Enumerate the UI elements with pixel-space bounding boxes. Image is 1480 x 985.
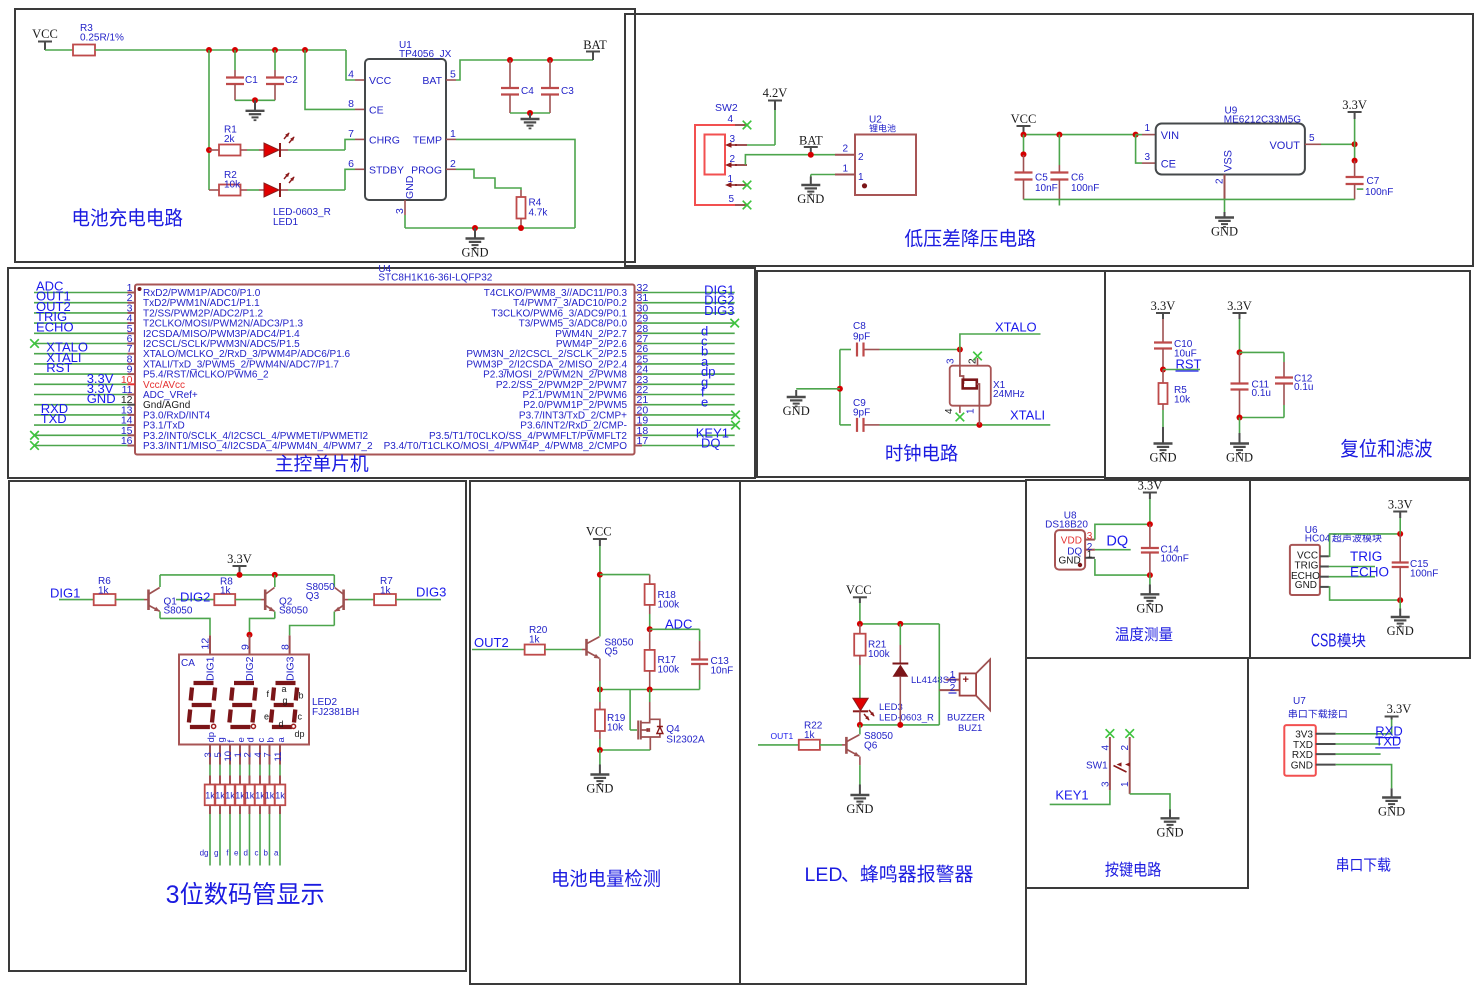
wire SW2 pin3 to 4.2V <box>774 110 776 145</box>
U4 right pin 29 wire <box>642 322 735 324</box>
svg-text:C4: C4 <box>521 86 534 97</box>
U4 left pin 6 wire <box>34 343 128 345</box>
svg-text:GND: GND <box>404 175 416 199</box>
transistor Q2 S8050 <box>264 590 267 611</box>
section box: LED buzzer alarm <box>740 481 1026 984</box>
title serial <box>1337 857 1348 871</box>
wire mid rail <box>600 689 700 691</box>
wire SW1 to gnd <box>1130 794 1170 810</box>
svg-text:C8: C8 <box>853 321 866 332</box>
segment wire b <box>269 805 271 814</box>
svg-text:2: 2 <box>858 152 864 163</box>
U4 left pin 7 wire <box>34 353 128 355</box>
svg-text:9: 9 <box>239 644 251 650</box>
svg-text:3: 3 <box>1087 531 1093 542</box>
svg-text:8: 8 <box>348 98 354 110</box>
wire U2 pin1 to gnd <box>835 174 855 176</box>
svg-text:DIG2: DIG2 <box>244 656 256 681</box>
section box: MCU <box>8 268 755 478</box>
capacitor C14 <box>1149 524 1151 548</box>
svg-text:2: 2 <box>842 144 848 155</box>
power 3.3V reset <box>1156 312 1170 314</box>
ground csb <box>1399 600 1401 608</box>
svg-text:DIG1: DIG1 <box>205 656 217 681</box>
svg-text:TP4056_JX: TP4056_JX <box>399 49 452 60</box>
svg-text:1k: 1k <box>220 586 232 597</box>
switch SW1 <box>1109 737 1111 790</box>
title reset <box>1341 439 1358 458</box>
U4 right pin 26 wire <box>642 353 735 355</box>
net KEY1 wire <box>1050 790 1110 804</box>
svg-text:2k: 2k <box>224 134 236 145</box>
svg-text:P3.4/T0/T1CLKO/MOSI_4/PWM4P_4/: P3.4/T0/T1CLKO/MOSI_4/PWM4P_4/PWM8_2/CMP… <box>384 441 628 452</box>
svg-text:TXD: TXD <box>41 411 67 426</box>
U4 left pin 2 wire <box>34 302 128 304</box>
svg-text:a: a <box>282 684 287 694</box>
resistor R4 <box>520 190 522 197</box>
svg-text:BAT: BAT <box>799 134 823 148</box>
svg-text:DIG2: DIG2 <box>180 590 210 605</box>
svg-text:+: + <box>963 674 969 686</box>
ground under C4 C3 <box>521 113 540 128</box>
resistor R3 <box>73 45 95 56</box>
section box: 7-segment display <box>9 481 466 971</box>
svg-text:LED: LED <box>805 864 843 886</box>
display pin 7 lead <box>269 745 271 765</box>
capacitor C13 <box>699 629 701 641</box>
power 3.3V csb <box>1393 511 1407 513</box>
svg-text:Q5: Q5 <box>605 647 619 658</box>
svg-text:1: 1 <box>858 172 864 183</box>
svg-text:3.3V: 3.3V <box>1388 498 1413 512</box>
wire vcc vertical <box>599 546 601 637</box>
power 3.3V ldo <box>1348 111 1362 113</box>
capacitor C15 <box>1399 534 1401 563</box>
svg-text:DIG3: DIG3 <box>284 656 296 681</box>
U4 right pin 19 wire <box>642 424 735 426</box>
svg-text:Q3: Q3 <box>306 591 320 602</box>
svg-text:TEMP: TEMP <box>413 135 442 147</box>
svg-text:1: 1 <box>450 128 456 140</box>
svg-text:b: b <box>264 849 269 858</box>
ground U2 <box>801 177 820 195</box>
svg-text:VIN: VIN <box>1161 130 1179 142</box>
display pin 2 lead <box>249 745 251 765</box>
U4 left pin 11 wire <box>34 394 128 396</box>
svg-text:3.3V: 3.3V <box>1138 479 1163 493</box>
wire vcc rail ldo <box>1024 134 1136 136</box>
capacitor C2 <box>274 50 276 70</box>
buzzer BUZ1 <box>939 689 959 691</box>
wire cap join <box>235 99 275 101</box>
svg-text:4: 4 <box>944 408 955 414</box>
svg-text:BAT: BAT <box>583 38 607 52</box>
svg-text:100k: 100k <box>868 649 891 660</box>
svg-text:CA: CA <box>181 658 195 669</box>
display pin 10 lead <box>229 745 231 765</box>
svg-text:9pF: 9pF <box>853 408 870 419</box>
capacitor C6 <box>1058 135 1060 165</box>
svg-text:4: 4 <box>1100 745 1111 751</box>
svg-text:1k: 1k <box>225 791 235 801</box>
transistor Q1 S8050 <box>147 590 150 611</box>
title MCU <box>276 455 293 472</box>
ground main charger <box>466 228 485 248</box>
display pin 4 lead <box>259 745 261 765</box>
decimal points <box>212 724 216 728</box>
no-connect X left <box>30 339 39 348</box>
U4 right pin 17 wire <box>642 445 735 447</box>
wire R8 to Q2 <box>235 599 261 601</box>
U6 VCC wire <box>1320 555 1329 557</box>
svg-text:dp: dp <box>295 729 305 739</box>
wire left branch <box>208 50 210 190</box>
net ADC <box>647 626 653 632</box>
no-connect X marks SW2 <box>743 121 752 130</box>
wire bottom rail detect <box>600 749 650 751</box>
svg-text:3.3V: 3.3V <box>227 552 252 566</box>
wire to R18 <box>600 574 650 576</box>
segment wire e <box>239 805 241 814</box>
U8 pin3 <box>1085 539 1095 541</box>
svg-text:d: d <box>245 737 256 742</box>
svg-text:7: 7 <box>348 128 354 140</box>
LED1 top <box>241 149 248 151</box>
power BAT <box>586 51 600 53</box>
U4 right pin 24 wire <box>642 373 735 375</box>
ground temp <box>1149 575 1151 584</box>
capacitor C12 branch <box>1240 351 1285 353</box>
svg-text:3.3V: 3.3V <box>1342 98 1367 112</box>
power VCC buzzer <box>853 596 867 598</box>
svg-text:100nF: 100nF <box>1071 183 1099 194</box>
segment wire dg <box>209 805 211 814</box>
svg-text:3: 3 <box>166 881 180 909</box>
wire Q1 emitter to display pin12 <box>160 618 210 635</box>
ground U9 <box>1215 212 1234 227</box>
svg-text:C2: C2 <box>285 75 298 86</box>
svg-text:3.3V: 3.3V <box>1387 702 1412 716</box>
svg-text:Q6: Q6 <box>864 741 878 752</box>
wire Q3 emitter to display pin8 <box>290 626 335 636</box>
node junctions on VCC rail <box>206 47 212 53</box>
svg-text:GND: GND <box>1149 451 1176 465</box>
display leads top <box>209 635 211 654</box>
diode LL4148SG <box>899 624 901 645</box>
svg-text:g: g <box>214 849 218 858</box>
svg-text:a: a <box>276 737 287 743</box>
svg-text:DQ: DQ <box>1106 534 1128 550</box>
7seg digit 3 <box>271 683 297 727</box>
svg-text:TRIG: TRIG <box>1350 549 1382 564</box>
svg-text:12: 12 <box>200 638 212 650</box>
svg-text:1k: 1k <box>98 586 110 597</box>
svg-text:CE: CE <box>369 105 384 117</box>
svg-text:b: b <box>299 691 304 701</box>
svg-text:0.1u: 0.1u <box>1252 388 1271 399</box>
segment wire g <box>219 805 221 814</box>
svg-text:1: 1 <box>727 174 733 185</box>
svg-text:8: 8 <box>279 644 291 650</box>
wire C11 gnd <box>1239 418 1241 434</box>
section box: CSB module <box>1250 480 1470 658</box>
svg-text:1: 1 <box>950 670 956 681</box>
U4 right pin 28 wire <box>642 332 735 334</box>
segment wire d <box>249 805 251 814</box>
svg-text:SW2: SW2 <box>715 102 738 114</box>
svg-text:STDBY: STDBY <box>369 165 404 177</box>
svg-text:BUZ1: BUZ1 <box>958 723 982 734</box>
capacitor C11 <box>1239 352 1241 383</box>
U4 left pin 16 wire <box>34 445 128 447</box>
svg-text:ECHO: ECHO <box>1350 564 1389 579</box>
wire bottom rail buzzer <box>860 724 939 726</box>
svg-text:e: e <box>701 395 708 410</box>
resistor R1 <box>209 149 219 151</box>
segment wire c <box>259 805 261 814</box>
U4 left pin 5 wire <box>34 332 128 334</box>
svg-text:4: 4 <box>727 114 733 125</box>
power 4.2V <box>768 100 782 102</box>
U4 right pin 31 wire <box>642 302 735 304</box>
svg-text:c: c <box>255 849 259 858</box>
LED3 <box>853 698 868 710</box>
svg-text:STC8H1K16-36I-LQFP32: STC8H1K16-36I-LQFP32 <box>378 273 492 284</box>
svg-text:2: 2 <box>968 358 979 364</box>
svg-text:1k: 1k <box>529 635 541 646</box>
section box: LDO step-down circuit <box>625 14 1473 266</box>
svg-text:d: d <box>244 849 248 858</box>
net OUT2 wire <box>472 649 525 651</box>
wire gnd rail ldo <box>1024 198 1355 200</box>
svg-text:e: e <box>234 849 239 858</box>
svg-text:LED1: LED1 <box>273 217 298 228</box>
wire TEMP pin 1 <box>446 138 456 140</box>
wire XTALO <box>880 349 960 351</box>
svg-text:11: 11 <box>273 752 284 762</box>
net DIG3 wire <box>396 599 441 601</box>
svg-text:10nF: 10nF <box>711 666 734 677</box>
mosfet Q4 SI2302A <box>629 690 631 731</box>
U4 right pin 30 wire <box>642 312 735 314</box>
svg-text:GND: GND <box>586 782 613 796</box>
resistor bank 8x 1k <box>205 785 216 806</box>
resistor R2 <box>209 189 219 191</box>
svg-text:6: 6 <box>348 158 354 170</box>
wire Q3 base to R7 <box>344 599 348 601</box>
U7 TXD wire / net RXD <box>1316 743 1336 745</box>
wire to CHRG pin 7 <box>345 139 355 150</box>
svg-text:CHRG: CHRG <box>369 135 400 147</box>
svg-text:GND: GND <box>1295 580 1317 591</box>
svg-text:GND: GND <box>1387 624 1414 638</box>
svg-text:100k: 100k <box>658 600 681 611</box>
U8 pin2 DQ <box>1085 549 1095 551</box>
power VCC detect <box>593 538 607 540</box>
wire <box>45 49 73 51</box>
display pin 3 lead <box>209 745 211 765</box>
wire CE pin3 <box>1136 135 1142 164</box>
svg-text:OUT2: OUT2 <box>474 635 509 650</box>
svg-text:XTALO: XTALO <box>995 320 1037 335</box>
U4 left pin 14 wire <box>34 424 128 426</box>
ground under C1 C2 <box>246 100 265 120</box>
capacitor C4 <box>509 60 511 88</box>
svg-text:HC04: HC04 <box>1305 534 1331 545</box>
wire XTALI <box>880 424 1051 426</box>
wire to STDBY pin 6 <box>345 169 355 190</box>
svg-text:2: 2 <box>729 154 735 165</box>
svg-text:b: b <box>265 737 276 742</box>
wire BAT out <box>446 79 456 81</box>
ground serial <box>1382 788 1401 807</box>
wire VOUT pin5 <box>1305 143 1321 145</box>
wire VIN pin1 <box>1136 134 1142 136</box>
svg-text:1: 1 <box>842 164 848 175</box>
U7 GND wire <box>1316 764 1336 766</box>
svg-text:1k: 1k <box>265 791 275 801</box>
svg-text:VCC: VCC <box>846 583 872 597</box>
wire Q2 emitter to display pin9 <box>250 618 275 634</box>
power 3.3V filter <box>1233 312 1247 314</box>
svg-text:GND: GND <box>797 192 824 206</box>
power 3.3V display <box>233 565 247 567</box>
svg-text:GND: GND <box>1378 805 1405 819</box>
svg-text:KEY1: KEY1 <box>1055 788 1088 803</box>
display LED2 FJ2381BH <box>179 655 309 745</box>
svg-text:U2: U2 <box>869 115 882 126</box>
resistor R20 <box>525 645 545 655</box>
U4 right pin 22 wire <box>642 394 735 396</box>
chip U9 ME6212C33M5G <box>1156 124 1305 175</box>
svg-text:GND: GND <box>1059 556 1081 567</box>
svg-text:5: 5 <box>450 69 456 81</box>
svg-text:OUT1: OUT1 <box>771 731 794 741</box>
svg-text:24MHz: 24MHz <box>993 389 1025 400</box>
wire PROG staircase <box>446 168 456 170</box>
capacitor C5 <box>1023 135 1025 155</box>
svg-text:0.25R/1%: 0.25R/1% <box>80 33 124 44</box>
svg-text:d: d <box>279 719 284 729</box>
transistor Q3 S8050 mirrored <box>342 590 345 611</box>
U4 right pin 20 wire <box>642 414 735 416</box>
svg-text:SI2302A: SI2302A <box>666 735 705 746</box>
svg-text:1: 1 <box>966 408 977 414</box>
ground R5 <box>1154 427 1173 453</box>
svg-text:RST: RST <box>1176 357 1202 372</box>
7seg digit 2 <box>229 683 255 727</box>
section box: key circuit <box>1026 658 1248 888</box>
ground detect <box>590 765 609 784</box>
svg-text:VCC: VCC <box>32 27 58 41</box>
U7 3V3 wire <box>1316 733 1336 735</box>
svg-text:100nF: 100nF <box>1410 569 1438 580</box>
svg-text:DS18B20: DS18B20 <box>1045 519 1088 530</box>
svg-text:10k: 10k <box>607 723 624 734</box>
title LDO <box>905 229 923 247</box>
svg-text:2: 2 <box>242 752 253 757</box>
svg-text:DIG3: DIG3 <box>416 585 446 600</box>
svg-text:4: 4 <box>348 69 354 81</box>
battery U2 <box>835 154 855 156</box>
svg-text:C6: C6 <box>1071 173 1084 184</box>
svg-text:VCC: VCC <box>1011 112 1037 126</box>
svg-text:ECHO: ECHO <box>36 319 74 334</box>
resistor R19 <box>599 690 601 703</box>
net RST <box>1160 367 1166 373</box>
svg-text:3.3V: 3.3V <box>1151 299 1176 313</box>
svg-text:0.1u: 0.1u <box>1294 382 1313 393</box>
7seg digit 1 <box>189 683 215 727</box>
resistor R8 <box>214 594 235 605</box>
resistor R17 <box>649 629 651 650</box>
wire to U1 VCC pin 4 <box>346 50 355 80</box>
svg-text:9pF: 9pF <box>853 332 870 343</box>
display pin 5 lead <box>219 745 221 765</box>
svg-text:16: 16 <box>121 435 133 447</box>
U4 left pin 15 wire <box>34 434 128 436</box>
svg-text:GND: GND <box>87 391 116 406</box>
wire collector rail <box>160 574 334 576</box>
svg-text:1k: 1k <box>215 791 225 801</box>
U7 RXD wire / net TXD <box>1316 753 1336 755</box>
svg-text:DQ: DQ <box>701 436 721 451</box>
svg-text:GND: GND <box>1156 826 1183 840</box>
svg-text:7: 7 <box>262 752 273 757</box>
svg-text:S8050: S8050 <box>164 606 193 617</box>
svg-text:VCC: VCC <box>369 75 392 87</box>
svg-text:TXD: TXD <box>1375 734 1401 749</box>
resistor R22 <box>799 740 820 750</box>
svg-text:3: 3 <box>946 358 957 364</box>
svg-text:GND: GND <box>783 404 810 418</box>
U4 left pin 8 wire <box>34 363 128 365</box>
svg-text:GND: GND <box>1211 225 1238 239</box>
svg-text:5: 5 <box>728 194 734 205</box>
chip U8 DS18B20 <box>1055 530 1085 570</box>
svg-text:GND: GND <box>1226 451 1253 465</box>
wire CE pin 8 <box>305 50 355 109</box>
section box: battery charging circuit <box>15 9 635 262</box>
resistor R18 <box>649 575 651 585</box>
wire VCC rail <box>95 49 346 51</box>
crystal X1 24MHz <box>959 350 961 377</box>
display pin 11 lead <box>279 745 281 765</box>
X1 pin2 nc <box>977 358 979 366</box>
title battery charging <box>74 208 90 226</box>
capacitor C1 <box>234 50 236 70</box>
svg-text:100k: 100k <box>658 665 681 676</box>
U4 right pin 18 wire <box>642 434 735 436</box>
svg-text:GND: GND <box>461 246 488 260</box>
U4 right pin 32 wire <box>642 292 735 294</box>
svg-text:GND: GND <box>1291 760 1313 771</box>
svg-text:XTALI: XTALI <box>1010 408 1045 423</box>
resistor R5 <box>1162 370 1164 384</box>
svg-text:ME6212C33M5G: ME6212C33M5G <box>1224 115 1301 126</box>
svg-text:4.7k: 4.7k <box>529 208 549 219</box>
svg-text:e: e <box>264 712 269 722</box>
segment wire f <box>229 805 231 814</box>
U4 right pin 21 wire <box>642 404 735 406</box>
svg-text:dg: dg <box>200 849 209 858</box>
wire R6 to Q1 <box>116 599 145 601</box>
resistor R21 <box>859 624 861 634</box>
U4 left pin 9 wire <box>34 373 128 375</box>
module U6 HC04 <box>1290 545 1320 595</box>
svg-text:SW1: SW1 <box>1086 761 1108 772</box>
U6 TRIG wire <box>1320 566 1329 568</box>
